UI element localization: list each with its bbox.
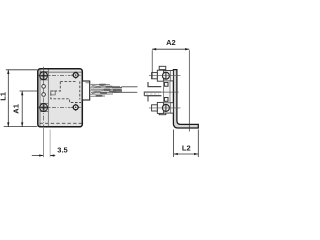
svg-text:L2: L2	[182, 143, 191, 152]
svg-text:3.5: 3.5	[57, 146, 67, 155]
svg-text:A1: A1	[11, 104, 20, 114]
svg-text:L1: L1	[0, 92, 8, 101]
svg-text:A2: A2	[166, 38, 176, 47]
